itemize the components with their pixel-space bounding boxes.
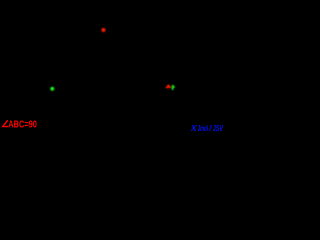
atom C (green fragment, right) — [171, 85, 175, 91]
atom A (green, left) — [50, 87, 55, 92]
atom B (red, top) — [101, 28, 106, 33]
atom C (red fragment, right) — [165, 84, 171, 88]
svg-text:ABC=90: ABC=90 — [8, 119, 37, 130]
svg-text:JSV: JSV — [213, 124, 224, 133]
angle symbol of measurement label — [3, 120, 8, 126]
svg-text:Jmol: Jmol — [198, 124, 209, 133]
svg-text:X: X — [190, 124, 197, 133]
